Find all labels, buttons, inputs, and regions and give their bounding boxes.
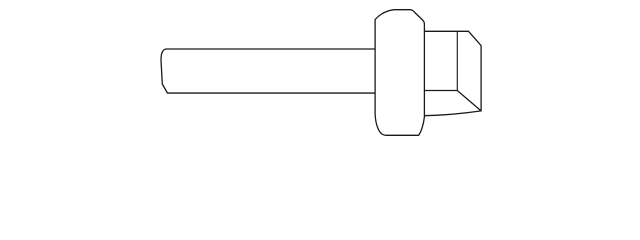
- hex head inner vertical edge: [456, 31, 458, 90]
- hex head inner bottom edges: [424, 91, 481, 111]
- hex head outline: [424, 31, 481, 115]
- bolt shaft outline: [161, 49, 375, 93]
- flange outline: [375, 10, 424, 136]
